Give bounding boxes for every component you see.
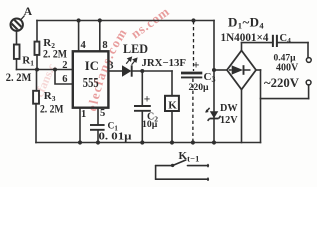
svg-text:220µ: 220µ (189, 82, 210, 93)
svg-text:6: 6 (62, 74, 67, 85)
svg-text:LED: LED (123, 42, 148, 56)
svg-text:+: + (193, 58, 200, 72)
svg-text:JRX−13F: JRX−13F (142, 58, 187, 69)
svg-text:3: 3 (108, 60, 113, 71)
svg-text:A: A (24, 6, 33, 18)
svg-text:1N4001×4: 1N4001×4 (221, 30, 269, 44)
svg-text:4: 4 (81, 40, 87, 51)
svg-text:0. 01µ: 0. 01µ (99, 131, 132, 142)
svg-text:K: K (168, 99, 177, 111)
svg-text:555: 555 (83, 75, 99, 90)
svg-text:10µ: 10µ (142, 119, 158, 130)
svg-text:400V: 400V (276, 62, 299, 73)
svg-text:8: 8 (102, 40, 107, 51)
svg-text:2. 2M: 2. 2M (40, 101, 64, 115)
svg-text:DW: DW (220, 103, 238, 114)
svg-text:D1~D4: D1~D4 (228, 15, 264, 31)
svg-text:IC: IC (85, 59, 99, 73)
svg-text:5: 5 (100, 108, 105, 119)
svg-text:+: + (144, 93, 151, 105)
svg-text:1: 1 (81, 109, 86, 120)
svg-text:2. 2M: 2. 2M (6, 70, 32, 84)
svg-text:12V: 12V (220, 115, 238, 126)
svg-text:2: 2 (62, 60, 67, 71)
svg-text:2. 2M: 2. 2M (43, 46, 67, 60)
svg-text:~220V: ~220V (264, 76, 299, 90)
